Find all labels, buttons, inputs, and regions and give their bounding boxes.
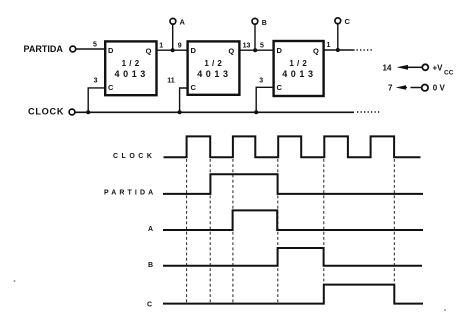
wire PARTIDA to D1 [76,48,105,50]
terminal circle PARTIDA [70,46,76,52]
svg-text:3: 3 [259,78,263,85]
svg-text:D: D [108,46,114,55]
terminal circle B [252,18,258,24]
svg-text:Q: Q [146,46,152,55]
timing dashed gridline t5 [323,159,325,302]
junction node A [171,48,175,52]
A waveform [163,210,423,230]
wire junction to terminal B [254,24,256,50]
svg-text:5: 5 [93,41,97,48]
svg-text:B: B [262,20,267,27]
junction node B [253,48,257,52]
svg-text:3: 3 [94,77,98,84]
junction clock/U2 [178,110,182,114]
clock bus wire [75,111,354,113]
svg-text:1: 1 [327,42,331,49]
svg-text:A: A [148,226,153,233]
arrow pin14 to Vcc [397,65,408,70]
terminal circle +Vcc [422,64,428,70]
dotted continuation of clock wire [357,111,380,113]
svg-text:4013: 4013 [197,69,231,79]
svg-text:PARTIDA: PARTIDA [104,189,156,196]
svg-text:C: C [108,83,114,92]
svg-text:4013: 4013 [282,69,316,79]
timing dashed gridline t3 [232,159,234,304]
svg-text:4013: 4013 [114,69,148,79]
scan speck bottom right [444,309,446,311]
wire clock to C1 [88,88,105,112]
svg-text:PARTIDA: PARTIDA [24,44,64,54]
svg-text:13: 13 [243,43,251,50]
flip-flop U1 1/2 4013 [105,41,156,95]
svg-text:C: C [191,83,197,92]
junction clock/U3 [254,110,258,114]
wire arrow to 0V terminal (broken) [403,87,407,89]
B waveform [163,248,422,266]
flip-flop U2 1/2 4013 [188,41,240,94]
junction node C [336,48,340,52]
svg-text:5: 5 [260,43,264,50]
PARTIDA waveform [163,174,423,194]
svg-text:+V: +V [433,64,444,73]
wire clock to C3 [256,87,273,112]
timing dashed gridline t1 [186,159,188,304]
timing dashed gridline t6 [393,159,395,302]
svg-text:9: 9 [178,43,182,50]
svg-text:Q: Q [228,46,234,55]
svg-text:11: 11 [167,78,175,85]
svg-text:C: C [147,301,152,308]
wire Q3 output [324,49,355,51]
svg-text:D: D [191,46,197,55]
svg-text:A: A [180,18,186,27]
svg-text:1: 1 [159,43,163,50]
timing dashed gridline t4 [277,159,279,304]
arrow pin7 to 0V [396,85,406,89]
svg-text:1/2: 1/2 [204,59,225,68]
terminal circle 0V [422,85,428,91]
svg-text:C: C [345,17,351,26]
C waveform [163,285,423,304]
svg-text:CLOCK: CLOCK [113,153,155,160]
wire junction to terminal A [172,24,174,50]
wire Q1 to D2 [157,49,188,51]
wire junction to terminal C [337,24,339,51]
flip-flop U3 1/2 4013 [274,41,324,96]
terminal circle CLOCK [69,109,75,115]
scan speck left [14,280,16,282]
svg-text:0V: 0V [433,84,447,93]
svg-text:D: D [277,46,283,55]
svg-text:CC: CC [444,69,454,76]
svg-text:14: 14 [383,63,392,72]
svg-text:B: B [148,262,153,269]
wire arrow to Vcc terminal [406,66,422,68]
svg-text:1/2: 1/2 [122,59,143,68]
svg-text:1/2: 1/2 [289,59,310,68]
timing dashed gridline t2 [209,159,211,304]
svg-text:C: C [277,83,283,92]
CLOCK waveform [164,136,421,157]
terminal circle C [335,18,341,24]
wire clock to C2 [180,88,188,112]
wire Q2 to D3 [240,49,274,51]
junction clock/U1 [86,110,90,114]
svg-text:CLOCK: CLOCK [28,107,64,117]
svg-text:7: 7 [388,83,393,92]
terminal circle A [170,18,176,24]
dotted continuation of Q3 wire [357,49,373,51]
svg-text:Q: Q [313,46,319,55]
